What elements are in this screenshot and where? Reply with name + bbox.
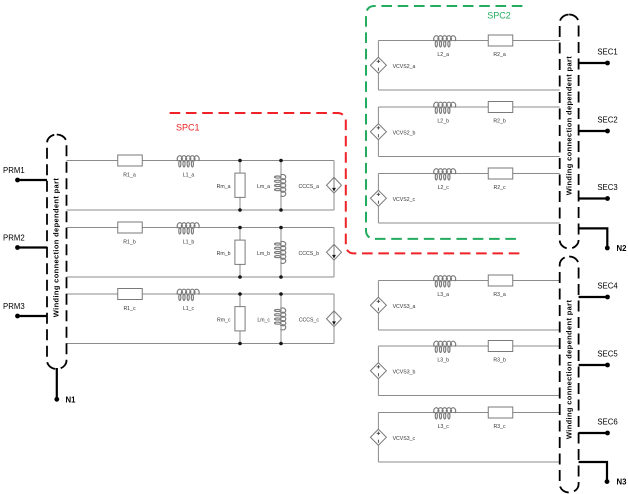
svg-text:N3: N3 [617,478,628,487]
svg-text:VCVS2_a: VCVS2_a [393,64,416,70]
svg-text:L2_a: L2_a [437,52,449,58]
svg-text:PRM3: PRM3 [3,302,25,311]
svg-text:L1_c: L1_c [183,306,195,312]
svg-text:R2_c: R2_c [494,185,507,191]
svg-text:N1: N1 [66,395,77,404]
svg-text:VCVS2_c: VCVS2_c [393,197,416,203]
svg-text:SEC4: SEC4 [597,282,618,291]
svg-text:N2: N2 [617,244,628,253]
svg-text:CCCS_a: CCCS_a [299,184,320,190]
svg-text:L3_b: L3_b [437,358,449,364]
svg-text:SEC1: SEC1 [597,48,617,57]
svg-text:CCCS_b: CCCS_b [299,251,320,257]
svg-text:PRM2: PRM2 [3,234,25,243]
svg-text:Winding connection dependent p: Winding connection dependent part [564,56,573,196]
svg-text:L1_b: L1_b [183,239,195,245]
svg-text:R1_b: R1_b [123,239,136,245]
svg-text:SPC2: SPC2 [487,10,511,20]
svg-text:R2_a: R2_a [493,52,506,58]
svg-text:R3_b: R3_b [493,358,506,364]
svg-text:SPC1: SPC1 [176,123,200,133]
svg-text:R1_a: R1_a [123,172,136,178]
svg-text:SEC5: SEC5 [597,350,618,359]
svg-text:L2_b: L2_b [437,119,449,125]
svg-text:VCVS3_a: VCVS3_a [393,304,416,310]
svg-text:CCCS_c: CCCS_c [299,317,320,323]
svg-text:Rm_c: Rm_c [217,317,231,323]
svg-text:VCVS2_b: VCVS2_b [393,130,416,136]
svg-text:R3_c: R3_c [494,424,507,430]
svg-text:Winding connection dependent p: Winding connection dependent part [564,300,573,440]
svg-text:VCVS3_c: VCVS3_c [393,436,416,442]
svg-text:SEC6: SEC6 [597,418,617,427]
svg-text:Rm_b: Rm_b [217,251,231,257]
svg-text:L1_a: L1_a [183,172,195,178]
svg-text:L3_c: L3_c [438,424,450,430]
svg-text:SEC2: SEC2 [597,116,617,125]
svg-text:Lm_b: Lm_b [257,251,270,257]
svg-text:Winding connection dependent p: Winding connection dependent part [52,178,61,318]
svg-text:VCVS3_b: VCVS3_b [393,369,416,375]
svg-text:Rm_a: Rm_a [217,184,231,190]
svg-text:R3_a: R3_a [493,292,506,298]
svg-text:L2_c: L2_c [438,185,450,191]
svg-text:SEC3: SEC3 [597,183,617,192]
svg-text:Lm_a: Lm_a [257,184,270,190]
svg-text:L3_a: L3_a [437,292,449,298]
svg-text:PRM1: PRM1 [3,166,25,175]
svg-text:R1_c: R1_c [123,306,136,312]
svg-text:R2_b: R2_b [493,119,506,125]
svg-text:Lm_c: Lm_c [257,317,270,323]
